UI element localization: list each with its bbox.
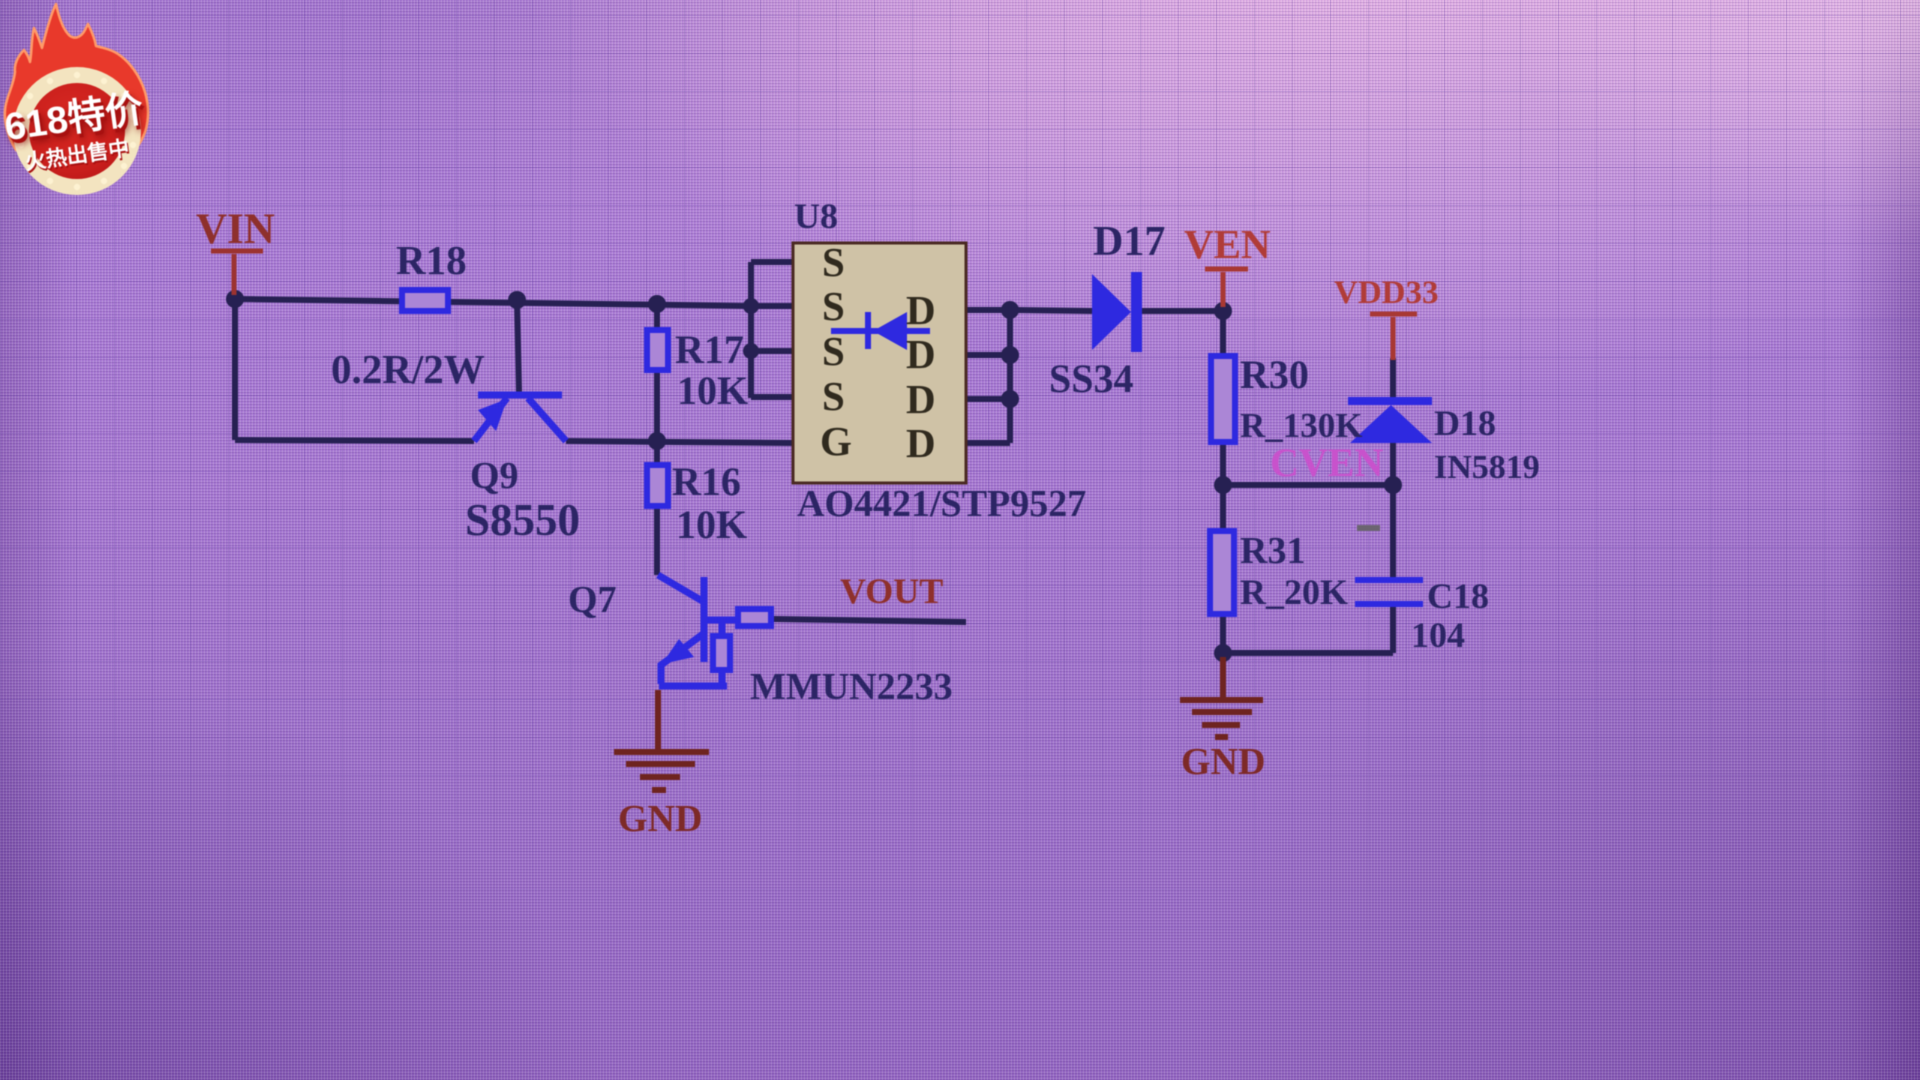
svg-text:104: 104: [1411, 615, 1465, 655]
svg-text:R17: R17: [675, 327, 744, 372]
svg-text:0.2R/2W: 0.2R/2W: [331, 346, 485, 392]
svg-text:D18: D18: [1434, 403, 1496, 443]
svg-text:AO4421/STP9527: AO4421/STP9527: [797, 483, 1086, 525]
svg-text:Q9: Q9: [470, 455, 519, 497]
svg-text:C18: C18: [1427, 576, 1489, 616]
svg-text:D: D: [906, 420, 936, 466]
svg-text:10K: 10K: [676, 502, 747, 547]
svg-text:S: S: [822, 239, 845, 285]
svg-text:D: D: [906, 331, 936, 377]
svg-text:VEN: VEN: [1184, 221, 1271, 267]
svg-text:VOUT: VOUT: [840, 571, 943, 611]
svg-text:Q7: Q7: [568, 579, 617, 621]
svg-text:U8: U8: [794, 196, 838, 236]
svg-text:VDD33: VDD33: [1334, 275, 1439, 311]
svg-text:VIN: VIN: [196, 206, 275, 253]
svg-text:GND: GND: [1181, 741, 1265, 783]
svg-text:R_20K: R_20K: [1240, 572, 1348, 612]
svg-text:D17: D17: [1093, 219, 1165, 265]
svg-text:D: D: [906, 287, 936, 333]
svg-text:CVEN: CVEN: [1270, 440, 1383, 485]
svg-text:R30: R30: [1240, 352, 1309, 397]
svg-text:G: G: [820, 418, 852, 464]
svg-text:S: S: [822, 283, 845, 329]
svg-text:GND: GND: [618, 798, 702, 840]
svg-text:S8550: S8550: [465, 495, 580, 545]
svg-text:10K: 10K: [677, 368, 748, 413]
svg-text:R16: R16: [672, 459, 741, 504]
svg-text:S: S: [822, 373, 845, 419]
svg-text:IN5819: IN5819: [1434, 449, 1540, 486]
svg-text:D: D: [906, 376, 936, 422]
svg-text:SS34: SS34: [1049, 356, 1134, 401]
svg-text:MMUN2233: MMUN2233: [750, 666, 953, 708]
svg-text:S: S: [822, 328, 845, 374]
svg-text:R18: R18: [396, 237, 467, 283]
svg-text:R31: R31: [1240, 530, 1305, 572]
